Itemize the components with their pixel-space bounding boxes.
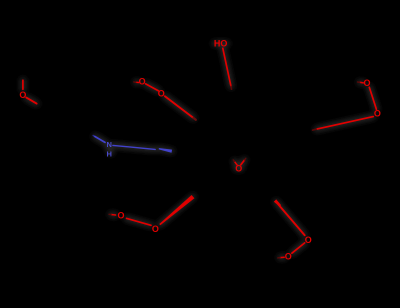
svg-text:O: O xyxy=(19,90,26,100)
svg-text:O: O xyxy=(363,78,370,88)
svg-text:O: O xyxy=(117,211,124,221)
svg-text:N: N xyxy=(106,140,111,149)
svg-text:O: O xyxy=(285,252,292,262)
svg-text:O: O xyxy=(374,109,381,119)
svg-text:O: O xyxy=(235,164,242,174)
svg-text:O: O xyxy=(152,224,159,234)
svg-text:O: O xyxy=(139,77,146,87)
svg-text:HO: HO xyxy=(214,38,228,48)
svg-text:O: O xyxy=(158,89,165,99)
svg-text:O: O xyxy=(305,235,312,245)
svg-text:H: H xyxy=(106,149,111,158)
